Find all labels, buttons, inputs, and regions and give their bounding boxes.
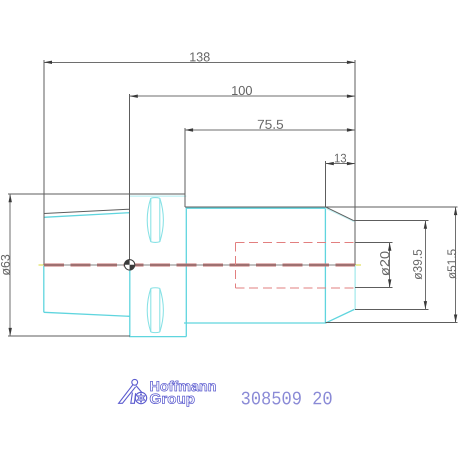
wire cyan cylinder bottom <box>184 322 326 324</box>
wire ext right face x355.1 <box>354 60 356 265</box>
dimension dia20 (right) <box>389 243 391 288</box>
wire ext step x184.9 <box>184 128 186 207</box>
left leg outline <box>119 385 136 404</box>
logo Hoffmann Group text <box>150 381 216 407</box>
wire dark cylinder top + dia51.5 top ext <box>185 206 458 208</box>
wire cyan right face <box>354 265 356 309</box>
wire cyan flange bottom <box>129 336 186 338</box>
slot bottom (cyan lens slot in flange) <box>147 288 163 333</box>
wire dark taper top <box>44 209 130 213</box>
wire ext chamfer x325.6 <box>325 161 327 207</box>
logo Hoffmann Group figure <box>119 379 147 403</box>
wire dark dia20 top ext <box>355 242 393 244</box>
wire dark dia39.5 top ext <box>353 220 428 222</box>
wire dark step face <box>184 194 186 207</box>
wire dark dia51.5 bottom ext <box>326 322 458 324</box>
part number 308509 20 <box>242 392 332 405</box>
wire cyan flange left face lower <box>129 265 131 337</box>
wire cyan chamfer bottom <box>326 309 354 322</box>
part outline (cyan) diagonals <box>44 208 355 323</box>
wire ext flange left x129.6 <box>129 94 131 265</box>
wire dark chamfer top <box>326 207 354 221</box>
dimension 100 <box>130 95 356 97</box>
wire ext left face x44 <box>43 60 45 265</box>
part outline (dark gray, top half) axis-aligned <box>8 194 458 336</box>
centerline thin gray <box>44 264 355 266</box>
centerline red dashes <box>44 264 355 267</box>
dimension dia39.5 (right) <box>424 221 426 310</box>
wire dark ext line of dia63 bottom <box>8 335 130 337</box>
gear outer <box>135 392 146 403</box>
slot top (cyan lens slot in flange) <box>147 198 163 243</box>
middle leg <box>131 393 136 404</box>
dimension dia51.5 (right) <box>455 207 457 323</box>
dimension dia63 (left) <box>9 194 11 336</box>
wire dark flange top / ext line of dia63 <box>8 193 185 195</box>
head <box>132 379 138 385</box>
extension lines vertical (gray) <box>44 60 355 265</box>
wire cyan left face <box>43 265 45 313</box>
wire cyan taper bottom <box>44 312 130 316</box>
part outline (cyan, product shape) axis-aligned <box>44 196 355 336</box>
back to gear <box>136 386 142 393</box>
bore dia20 hidden (red dashed) <box>236 243 356 288</box>
wire cyan chamfer edge vertical <box>324 208 326 323</box>
wire cyan flange right face <box>185 208 187 337</box>
wire cyan flange top <box>130 195 187 197</box>
centerline yellow tips <box>39 264 361 266</box>
wire cyan taper top <box>44 213 130 218</box>
center symbol (quadrant circle) <box>124 260 134 270</box>
part outline (dark) diagonals <box>44 207 354 221</box>
wire dark dia20 bottom ext <box>355 287 393 289</box>
wire cyan cylinder top <box>186 207 325 209</box>
wire dark dia39.5 bottom ext <box>355 308 428 310</box>
dimension 75.5 <box>185 129 355 131</box>
dimension 138 <box>44 61 355 63</box>
wire dark flat at right end top <box>353 219 355 221</box>
wire cyan chamfer top <box>326 208 355 221</box>
dimension 13 <box>326 163 356 165</box>
gear star <box>137 394 145 403</box>
